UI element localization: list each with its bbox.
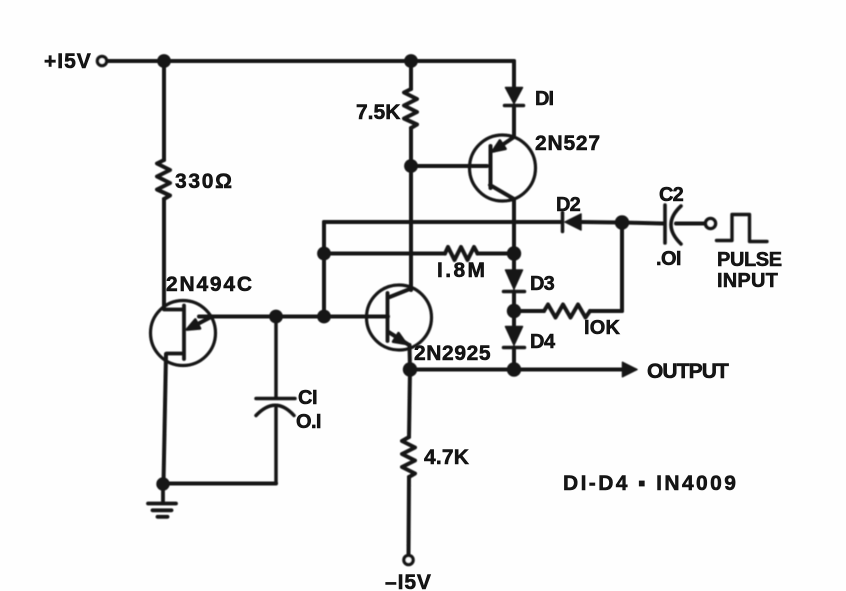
- svg-text:OUTPUT: OUTPUT: [647, 360, 729, 383]
- terminal pulse input: [706, 219, 716, 229]
- wire C2 to input terminal: [676, 222, 704, 226]
- wire emitter row (Q1 to Q3 base): [199, 315, 388, 319]
- pulse waveform icon: [717, 215, 768, 242]
- transistor 2N527 collector lead: [490, 185, 514, 199]
- node Q2 base junction: [404, 159, 418, 173]
- wire D1 to Q2 emitter: [512, 106, 516, 138]
- wire 7.5K to base node: [409, 128, 413, 166]
- svg-text:I.8M: I.8M: [437, 259, 487, 282]
- wire output node to 4.7K: [409, 370, 410, 438]
- wire Q1 to ground node: [164, 354, 167, 484]
- node feedback junction: [317, 310, 331, 324]
- wire 7.5K top: [409, 61, 413, 89]
- node C2 junction: [615, 215, 629, 229]
- transistor 2N2925 body: [367, 285, 432, 350]
- svg-text:330Ω: 330Ω: [175, 170, 234, 193]
- svg-text:–I5V: –I5V: [385, 571, 432, 591]
- wire Q2 base lead: [411, 164, 487, 168]
- wire C2 node to C2: [622, 223, 663, 224]
- svg-text:7.5K: 7.5K: [356, 101, 400, 124]
- svg-text:+I5V: +I5V: [44, 50, 92, 73]
- transistor 2N527 body: [470, 135, 536, 201]
- node output junction left: [403, 362, 417, 376]
- wire D1 drop: [512, 61, 516, 88]
- wire to D3: [512, 254, 516, 271]
- svg-text:O.I: O.I: [296, 411, 321, 433]
- transistor 2N2925 base bar: [386, 293, 390, 341]
- node D3-D4 junction: [507, 304, 521, 318]
- transistor 2N527 base bar: [489, 146, 493, 188]
- svg-text:INPUT: INPUT: [717, 270, 778, 292]
- wire 4.7K to -15V terminal: [407, 477, 412, 555]
- node ground junction: [156, 477, 169, 490]
- output arrowhead: [623, 362, 638, 376]
- svg-text:C2: C2: [659, 184, 684, 206]
- svg-text:4.7K: 4.7K: [424, 446, 469, 469]
- diode D3: [506, 270, 523, 289]
- transistor 2N2925 emitter lead: [389, 332, 410, 345]
- wire Q2 collector down: [512, 199, 516, 254]
- svg-text:CI: CI: [298, 387, 317, 409]
- wire 330ohm to Q1: [162, 199, 166, 308]
- transistor 2N494C emitter arrow: [187, 320, 200, 330]
- wire left vertical to 330 ohm: [162, 61, 166, 160]
- svg-text:IOK: IOK: [584, 317, 621, 339]
- resistor 4.7K: [402, 437, 415, 477]
- wire feedback vertical: [322, 222, 326, 317]
- svg-text:DI: DI: [535, 88, 553, 110]
- svg-text:DI-D4 ▪ IN4009: DI-D4 ▪ IN4009: [563, 472, 738, 495]
- svg-text:2N527: 2N527: [535, 132, 601, 155]
- svg-text:D4: D4: [530, 331, 556, 353]
- node C1 junction: [269, 310, 283, 324]
- svg-text:D2: D2: [556, 194, 581, 216]
- resistor 7.5K: [404, 89, 417, 128]
- node top-mid junction: [404, 54, 418, 68]
- wire output line: [410, 368, 623, 372]
- wire mid horizontal to D2: [324, 220, 561, 224]
- svg-text:2N2925: 2N2925: [414, 342, 491, 365]
- wire top rail: [107, 59, 514, 63]
- wire ground to C1 bottom: [163, 482, 276, 486]
- transistor 2N2925 emitter arrow: [393, 333, 406, 344]
- transistor 2N527 emitter arrow: [493, 141, 506, 152]
- wire Q3 emitter to output node: [408, 345, 413, 370]
- capacitor C2: [665, 205, 681, 244]
- transistor 2N2925 collector lead: [389, 289, 412, 298]
- resistor 330ohm: [157, 160, 170, 199]
- svg-text:PULSE: PULSE: [717, 249, 782, 271]
- wire D4 to output node: [512, 348, 516, 370]
- transistor 2N494C base bar: [164, 306, 184, 360]
- resistor 1.8M: [324, 252, 445, 256]
- node output junction right: [507, 362, 521, 376]
- wire 10K up to C2 node: [620, 223, 624, 312]
- svg-text:2N494C: 2N494C: [166, 273, 254, 296]
- svg-text:D3: D3: [530, 273, 555, 295]
- terminal -15V: [404, 555, 413, 564]
- diode D4: [506, 327, 523, 346]
- transistor 2N527 emitter lead: [494, 137, 514, 151]
- node 1.8M right junction: [507, 246, 521, 260]
- wire D3 to node: [512, 292, 516, 312]
- wire node to D4: [512, 311, 516, 327]
- diode D1: [506, 88, 523, 104]
- resistor 10K: [514, 309, 544, 313]
- terminal +15V: [97, 56, 106, 65]
- wire base node down to Q3 collector: [409, 166, 413, 290]
- capacitor C1: [256, 318, 295, 483]
- node 1.8M left junction: [317, 247, 331, 261]
- wire D2 to C2 node: [581, 220, 622, 225]
- node top-left junction: [157, 54, 171, 68]
- diode D2: [561, 213, 565, 232]
- ground symbol: [148, 484, 176, 517]
- svg-text:.OI: .OI: [656, 248, 681, 270]
- transistor 2N494C emitter lead: [190, 317, 212, 329]
- transistor 2N494C body: [151, 301, 216, 366]
